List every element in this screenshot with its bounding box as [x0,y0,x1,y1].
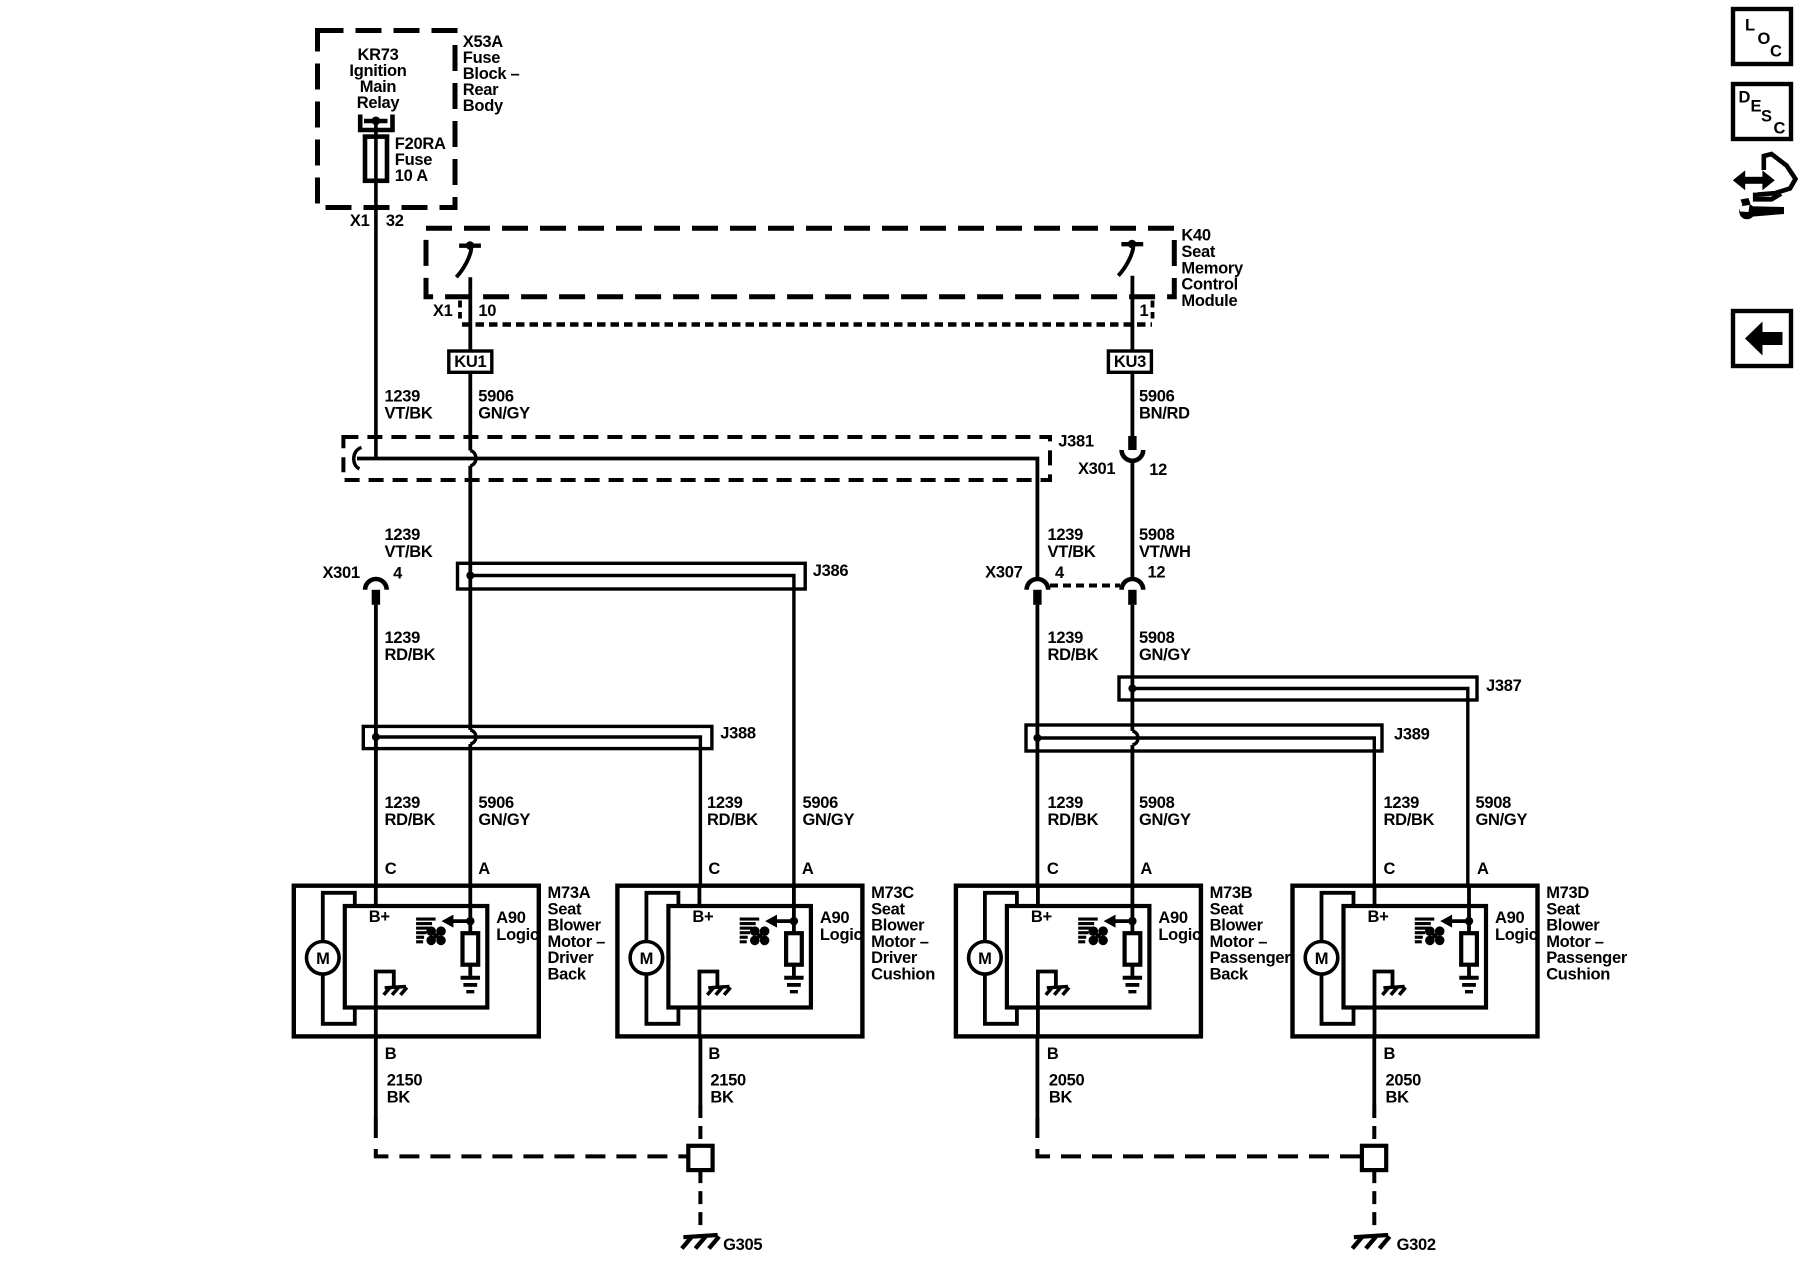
J386 bus wire [470,576,794,887]
svg-text:Blower: Blower [1210,917,1264,935]
M73A fan speed icon [416,918,436,921]
M73B fan rotor [1089,926,1099,936]
svg-text:Driver: Driver [871,949,918,967]
M73D control arrow [1450,919,1470,923]
svg-text:B: B [1047,1045,1059,1063]
svg-text:Motor –: Motor – [548,933,606,951]
M73C wire resistor to ground [792,965,796,976]
splice block (G302 feed) [1362,1146,1386,1170]
M73A earth ground [461,976,480,980]
svg-text:A: A [478,860,490,878]
svg-text:1239: 1239 [1048,526,1084,544]
svg-text:1239: 1239 [1048,629,1084,647]
M73A control arrow [451,919,471,923]
svg-text:VT/BK: VT/BK [1048,543,1096,561]
svg-text:B+: B+ [1368,908,1389,926]
wire 5906 BN/RD (KU3 to X301 pin12) [1131,372,1135,436]
svg-text:M: M [978,950,991,968]
M73C wire pin B to chassis ground [699,972,717,1008]
wire 5906 GN/GY (J381 to J388 hop, junction at J386) [468,466,472,730]
svg-text:RD/BK: RD/BK [1384,811,1435,829]
M73C resistor [786,933,802,965]
blower motor module M73C (outer box) [617,886,862,1037]
wire 1239 VT/BK from relay/fuse down to J381 [374,121,378,459]
svg-text:Control: Control [1181,276,1238,294]
wire 2150 BK (M73A dashed to splice) [376,1118,689,1156]
svg-text:5906: 5906 [478,794,514,812]
svg-text:E: E [1751,98,1762,116]
wire 2050 BK (M73B pin B, solid) [1036,1036,1040,1118]
M73C fan rotor [750,926,760,936]
connector X307 face (dashed link) [1050,584,1120,588]
svg-text:M: M [1315,950,1328,968]
M73C motor M [630,942,663,975]
M73C earth ground [784,976,803,980]
svg-text:K40: K40 [1181,227,1210,245]
svg-text:A90: A90 [496,909,525,927]
M73A A90 logic (inner box) [345,906,488,1008]
wire to ground G305 (dashed) [698,1170,702,1231]
connector X301 pin 12 [1128,436,1136,450]
M73B A90 logic (inner box) [1007,906,1150,1008]
M73C control arrow [774,919,794,923]
connector X301 pin 4 [365,579,387,590]
wire 5906 GN/GY (J388 to M73A pin A) [468,744,472,886]
M73C fan speed icon [740,918,760,921]
wire 2150 BK (M73A pin B, solid) [374,1036,378,1118]
svg-text:X1: X1 [350,212,370,230]
svg-text:A90: A90 [1495,909,1524,927]
wire 5908 GN/GY (J389 to M73B pin A) [1131,745,1135,886]
M73A junction on pin A wire [466,917,474,925]
M73B control arrow [1113,919,1133,923]
svg-text:1239: 1239 [385,794,421,812]
svg-text:5908: 5908 [1139,526,1175,544]
svg-text:X301: X301 [322,564,359,582]
svg-text:Back: Back [1210,966,1249,984]
svg-text:A: A [1477,860,1489,878]
M73D wire pin B to chassis ground [1375,972,1393,1008]
M73A wire pin A to resistor [468,886,472,934]
wire K40 pin1 to KU3 [1131,276,1135,351]
svg-text:Back: Back [548,966,587,984]
M73B wire pin A to resistor [1131,886,1135,934]
M73B wire pin B to chassis ground [1038,972,1056,1008]
svg-text:O: O [1758,30,1771,48]
svg-text:D: D [1739,89,1751,107]
svg-text:Memory: Memory [1181,259,1244,277]
M73B resistor [1125,933,1141,965]
wire 1239 RD/BK (X307-4 through J389 to M73B pin C) [1036,605,1040,886]
svg-text:C: C [1384,860,1396,878]
svg-text:L: L [1745,17,1755,35]
svg-text:2050: 2050 [1386,1072,1422,1090]
M73B motor loop [985,893,1017,942]
svg-text:Logic: Logic [1158,926,1201,944]
svg-text:5908: 5908 [1139,629,1175,647]
K40 internal switch (right, pin 1) [1121,242,1143,246]
M73D junction on pin A wire [1465,917,1473,925]
splice J387 (box) [1119,677,1477,700]
svg-text:10: 10 [478,302,496,320]
svg-text:RD/BK: RD/BK [1048,646,1099,664]
svg-text:BK: BK [387,1089,411,1107]
wire 2050 BK (M73B dashed to splice) [1037,1118,1362,1156]
svg-text:GN/GY: GN/GY [1139,811,1191,829]
net tag KU1 [449,351,492,372]
svg-text:12: 12 [1149,461,1167,479]
M73B earth ground [1123,976,1142,980]
svg-text:M: M [640,950,653,968]
svg-text:5906: 5906 [1139,388,1175,406]
svg-text:RD/BK: RD/BK [707,811,758,829]
blower motor module M73A (outer box) [294,886,539,1037]
svg-text:Cushion: Cushion [871,966,935,984]
wire 5908 VT/WH (X301-12 to X307-12) [1131,461,1135,579]
svg-text:S: S [1761,108,1772,126]
blower motor module M73D (outer box) [1293,886,1538,1037]
icon DESC button [1733,84,1791,139]
svg-text:BK: BK [1386,1089,1410,1107]
M73B chassis ground [1047,987,1068,988]
svg-text:J388: J388 [720,724,756,742]
svg-text:A: A [1140,860,1152,878]
icon wiring repair (arrows + wrench) [1742,177,1765,184]
icon LOC button [1733,9,1791,64]
svg-text:BK: BK [1049,1089,1073,1107]
svg-text:1239: 1239 [385,388,421,406]
svg-text:1239: 1239 [385,526,421,544]
M73D fan rotor [1425,926,1435,936]
M73D wire resistor to ground [1467,965,1471,976]
fuse block X53A (dashed box) [318,31,456,208]
M73B wire pin C into logic [1036,886,1040,906]
wire to ground G302 (dashed) [1372,1170,1376,1231]
svg-text:M73A: M73A [548,884,591,902]
ground G305 [683,1235,717,1237]
M73C wire pin C into logic [698,886,702,906]
M73C wire pin A to resistor [792,886,796,934]
svg-text:C: C [1774,120,1786,138]
svg-text:2050: 2050 [1049,1072,1085,1090]
svg-text:Motor –: Motor – [1210,933,1268,951]
icon back arrow button [1733,311,1791,366]
svg-text:Logic: Logic [496,926,539,944]
svg-text:X1: X1 [433,302,453,320]
svg-text:Seat: Seat [1546,900,1580,918]
wire 5908 GN/GY (X307-12 to J387/J389 hop) [1131,605,1135,731]
svg-text:B+: B+ [1031,908,1052,926]
svg-text:GN/GY: GN/GY [1139,646,1191,664]
fuse F20RA 10A [365,137,387,181]
svg-text:C: C [1047,860,1059,878]
J388 bus wire [376,737,701,886]
svg-text:GN/GY: GN/GY [478,811,530,829]
svg-text:M73D: M73D [1546,884,1589,902]
svg-text:M73B: M73B [1210,884,1253,902]
svg-text:C: C [385,860,397,878]
M73D chassis ground [1383,987,1404,988]
wire hop over J388 bus [470,730,476,744]
svg-text:KU3: KU3 [1114,353,1146,371]
M73A chassis ground [385,987,406,988]
svg-text:1239: 1239 [1384,794,1420,812]
svg-text:B: B [708,1045,720,1063]
M73A wire resistor to ground [468,965,472,976]
svg-text:Seat: Seat [871,900,905,918]
splice J388 (box) [363,726,712,748]
svg-text:VT/WH: VT/WH [1139,543,1191,561]
svg-text:Passenger: Passenger [1210,949,1292,967]
connector X307 pin 4 [1027,579,1049,590]
M73A wire pin B to chassis ground [376,972,394,1008]
svg-text:B: B [385,1045,397,1063]
splice J389 (box) [1026,725,1382,751]
svg-text:5908: 5908 [1139,794,1175,812]
wire 1239 RD/BK (X301-4 through J388 to M73A pin C) [374,605,378,886]
svg-text:Blower: Blower [871,917,925,935]
svg-text:J387: J387 [1486,677,1522,695]
J381 bus wire with end hook [354,448,362,469]
wire hop over J389 bus [1132,731,1138,745]
svg-text:RD/BK: RD/BK [385,811,436,829]
svg-text:J381: J381 [1058,433,1094,451]
junction J387 [1128,685,1136,693]
M73D motor M [1305,942,1338,975]
wire 2050 BK (M73D pin B, solid) [1372,1036,1376,1105]
svg-text:2150: 2150 [710,1072,746,1090]
svg-text:1239: 1239 [385,629,421,647]
M73C chassis ground [708,987,729,988]
svg-text:VT/BK: VT/BK [385,405,433,423]
svg-text:X307: X307 [985,564,1022,582]
M73D fan speed icon [1415,918,1435,921]
M73D resistor [1461,933,1477,965]
svg-text:M73C: M73C [871,884,914,902]
svg-text:2150: 2150 [387,1072,423,1090]
junction J386 [466,572,474,580]
M73A resistor [463,933,479,965]
svg-text:32: 32 [386,212,404,230]
svg-text:Passenger: Passenger [1546,949,1628,967]
svg-text:G305: G305 [723,1236,762,1254]
svg-text:A90: A90 [1158,909,1187,927]
svg-text:A: A [802,860,814,878]
svg-text:5906: 5906 [478,388,514,406]
M73B motor M [969,942,1002,975]
svg-text:BN/RD: BN/RD [1139,405,1190,423]
svg-text:Seat: Seat [1210,900,1244,918]
net tag KU3 [1108,351,1151,372]
wire 5906 GN/GY (KU1 to J381 hop) [468,372,472,450]
splice block (G305 feed) [688,1146,712,1170]
junction J388 [372,733,380,741]
svg-text:RD/BK: RD/BK [385,646,436,664]
ground G302 [1354,1235,1388,1237]
svg-text:X301: X301 [1078,460,1115,478]
svg-text:A90: A90 [820,909,849,927]
svg-text:BK: BK [710,1089,734,1107]
svg-text:B+: B+ [369,908,390,926]
M73A wire pin C into logic [374,886,378,906]
J389 bus wire [1037,738,1374,886]
M73D wire pin A to resistor [1467,886,1471,934]
wire K40 pin10 to KU1 [468,277,472,351]
svg-text:1239: 1239 [707,794,743,812]
M73B wire pin B [1036,1008,1040,1037]
svg-text:5906: 5906 [803,794,839,812]
svg-text:Relay: Relay [357,94,401,112]
junction J389 [1033,734,1041,742]
svg-text:GN/GY: GN/GY [803,811,855,829]
svg-text:Logic: Logic [820,926,863,944]
svg-text:1: 1 [1140,302,1149,320]
blower motor module M73B (outer box) [956,886,1201,1037]
connector X1 face (dotted line) [462,322,1152,326]
svg-text:C: C [1770,43,1782,61]
svg-text:C: C [708,860,720,878]
svg-text:J389: J389 [1394,726,1430,744]
svg-text:RD/BK: RD/BK [1048,811,1099,829]
M73D earth ground [1459,976,1478,980]
svg-text:GN/GY: GN/GY [478,405,530,423]
svg-text:G302: G302 [1397,1236,1436,1254]
M73B fan speed icon [1078,918,1098,921]
svg-text:GN/GY: GN/GY [1476,811,1528,829]
svg-text:4: 4 [393,565,403,583]
svg-text:Motor –: Motor – [871,933,929,951]
module K40 Seat Memory Control (dashed box) [426,228,1174,296]
M73D wire pin B [1373,1008,1377,1037]
svg-text:10 A: 10 A [395,167,428,185]
svg-text:1239: 1239 [1048,794,1084,812]
svg-text:5908: 5908 [1476,794,1512,812]
M73D wire pin C into logic [1373,886,1377,906]
svg-text:B+: B+ [692,908,713,926]
svg-text:Body: Body [463,97,504,115]
M73D A90 logic (inner box) [1344,906,1487,1008]
svg-text:KU1: KU1 [454,353,486,371]
svg-text:Cushion: Cushion [1546,966,1610,984]
M73A motor M [307,942,340,975]
wire hop over J381 bus [470,451,476,466]
M73D motor loop [1322,893,1354,942]
svg-text:M: M [316,950,329,968]
J387 bus wire [1132,689,1467,887]
splice J386 (box) [458,563,806,589]
svg-text:Blower: Blower [548,917,602,935]
svg-text:4: 4 [1055,564,1065,582]
svg-text:Module: Module [1181,292,1237,310]
svg-text:Logic: Logic [1495,926,1538,944]
K40 internal switch (left, pin 10) [459,243,481,247]
svg-text:12: 12 [1148,564,1166,582]
svg-text:Blower: Blower [1546,917,1600,935]
M73B wire resistor to ground [1131,965,1135,976]
relay KR73 contact [360,115,392,131]
svg-text:VT/BK: VT/BK [385,543,433,561]
M73C A90 logic (inner box) [668,906,811,1008]
M73C junction on pin A wire [790,917,798,925]
connector X307 pin 12 [1122,579,1144,590]
svg-text:Seat: Seat [1181,243,1215,261]
M73A motor loop [323,893,355,942]
svg-text:J386: J386 [813,562,849,580]
svg-text:Seat: Seat [548,900,582,918]
svg-text:B: B [1384,1045,1396,1063]
wire 2150 BK (M73C dashed) [698,1105,702,1146]
wire 2050 BK (M73D dashed) [1372,1105,1376,1146]
M73C wire pin B [698,1008,702,1037]
M73A fan rotor [426,926,436,936]
wire 2150 BK (M73C pin B, solid) [699,1036,703,1105]
M73C motor loop [646,893,678,942]
M73B junction on pin A wire [1128,917,1136,925]
splice pack J381 (dashed box) [343,437,1050,480]
svg-text:Motor –: Motor – [1546,933,1604,951]
svg-text:Driver: Driver [548,949,595,967]
M73A wire pin B [374,1008,378,1037]
